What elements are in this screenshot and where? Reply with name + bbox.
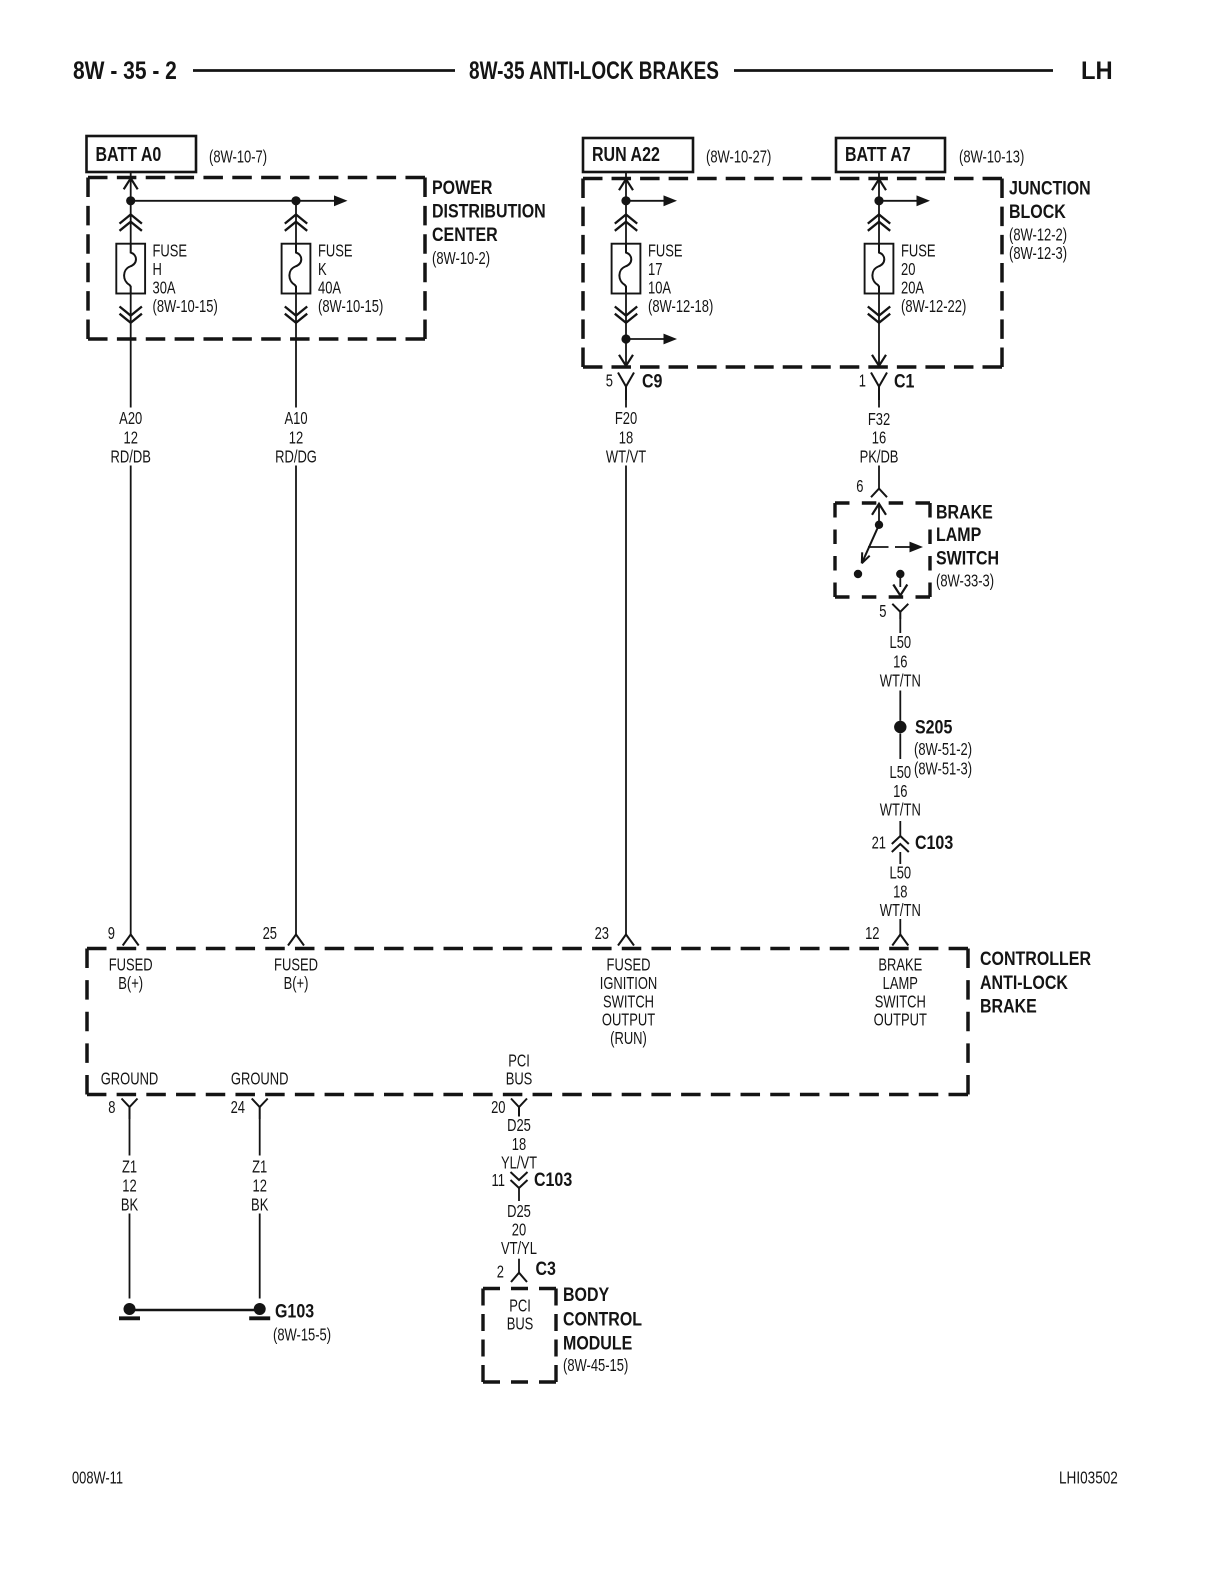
ground G103 right bar: [249, 1316, 270, 1320]
svg-text:(8W-10-13): (8W-10-13): [959, 148, 1024, 168]
svg-text:K: K: [318, 260, 327, 280]
svg-text:FUSED: FUSED: [109, 956, 153, 976]
svg-text:BODY: BODY: [563, 1284, 609, 1306]
svg-text:8: 8: [108, 1098, 115, 1118]
svg-text:C103: C103: [534, 1169, 572, 1191]
arrow run feed to other circuits: [626, 200, 664, 202]
svg-text:BLOCK: BLOCK: [1009, 201, 1066, 223]
svg-text:8W - 35 - 2: 8W - 35 - 2: [73, 56, 177, 84]
wire A10 lower: [295, 466, 297, 935]
ground G103 right dot: [254, 1303, 266, 1315]
svg-text:L50: L50: [889, 633, 911, 653]
svg-text:1: 1: [859, 372, 866, 392]
svg-text:(8W-10-2): (8W-10-2): [432, 249, 490, 269]
wire F32 upper: [878, 400, 880, 408]
node splice on A20 feed: [126, 196, 135, 205]
svg-text:FUSED: FUSED: [274, 956, 318, 976]
wire L50 seg4: [899, 821, 901, 836]
svg-text:C3: C3: [536, 1258, 557, 1280]
svg-text:18: 18: [893, 883, 908, 903]
connector chevrons below fuse K: [285, 307, 307, 316]
wire switch common: [878, 504, 880, 525]
wire to C3: [518, 1259, 520, 1273]
wire F32 lower: [878, 466, 880, 489]
svg-text:10A: 10A: [648, 279, 671, 299]
svg-text:16: 16: [893, 782, 908, 802]
connector chevrons below fuse 20: [868, 307, 890, 316]
wire F20 lower: [625, 466, 627, 935]
svg-text:G103: G103: [275, 1300, 314, 1322]
svg-text:LHI03502: LHI03502: [1059, 1469, 1118, 1488]
svg-text:FUSE: FUSE: [901, 242, 936, 262]
wire L50 seg5: [899, 852, 901, 864]
svg-text:16: 16: [893, 653, 908, 673]
fuse 20 20A: [865, 244, 894, 294]
svg-text:VT/YL: VT/YL: [501, 1239, 537, 1259]
wire A20 upper: [130, 294, 132, 408]
fuse H 30A: [116, 244, 145, 294]
svg-text:(8W-10-27): (8W-10-27): [706, 148, 771, 168]
arrow out of junction block at C1: [872, 355, 886, 366]
wire A20 lower: [130, 466, 132, 935]
controller anti-lock brake box: [87, 947, 968, 951]
connector C103 chevrons down: [511, 1172, 528, 1180]
svg-text:PCI: PCI: [508, 1052, 530, 1072]
connector box BATT A7: [836, 138, 945, 172]
svg-text:6: 6: [856, 477, 863, 497]
svg-text:11: 11: [492, 1171, 505, 1191]
wire BATT A7 to C1: [878, 172, 880, 244]
connector pin 23 CAB: [618, 935, 634, 946]
wire F20 upper: [625, 400, 627, 408]
svg-text:12: 12: [123, 428, 137, 448]
svg-text:8W-35 ANTI-LOCK BRAKES: 8W-35 ANTI-LOCK BRAKES: [469, 57, 719, 85]
svg-text:DISTRIBUTION: DISTRIBUTION: [432, 200, 546, 222]
svg-text:FUSE: FUSE: [648, 242, 683, 262]
svg-text:FUSE: FUSE: [153, 242, 188, 262]
svg-text:(8W-15-5): (8W-15-5): [273, 1326, 331, 1346]
svg-text:(8W-12-2): (8W-12-2): [1009, 226, 1067, 246]
connector C3: [511, 1273, 527, 1282]
wire A10 upper: [295, 201, 297, 244]
connector chevrons above fuse H: [120, 215, 142, 224]
svg-text:POWER: POWER: [432, 177, 493, 199]
svg-text:LH: LH: [1081, 58, 1113, 86]
wire bus A20 to A10: [131, 200, 296, 202]
arrow into RUN A22: [619, 179, 633, 190]
fuse K 40A: [282, 244, 311, 294]
svg-text:PK/DB: PK/DB: [860, 448, 899, 468]
power distribution center box: [88, 176, 425, 180]
svg-text:L50: L50: [889, 763, 911, 783]
svg-text:F32: F32: [868, 410, 890, 430]
svg-text:CONTROL: CONTROL: [563, 1308, 642, 1330]
svg-text:JUNCTION: JUNCTION: [1009, 177, 1091, 199]
svg-text:(8W-10-15): (8W-10-15): [153, 297, 218, 317]
connector chevrons below fuse 17: [615, 307, 637, 316]
node splice run feed: [621, 196, 630, 205]
svg-text:H: H: [153, 260, 162, 280]
svg-text:BUS: BUS: [506, 1070, 533, 1090]
svg-text:24: 24: [231, 1098, 246, 1118]
svg-text:(RUN): (RUN): [610, 1029, 647, 1049]
splice S205: [894, 721, 906, 733]
wire from BATT A0 to fuse H: [130, 172, 132, 244]
svg-text:12: 12: [252, 1177, 266, 1197]
svg-text:21: 21: [872, 834, 886, 854]
svg-text:F20: F20: [615, 409, 638, 429]
svg-text:CENTER: CENTER: [432, 224, 498, 246]
svg-text:(8W-51-2): (8W-51-2): [914, 740, 972, 760]
connector pin 24: [252, 1099, 268, 1108]
connector pin 12 CAB: [892, 935, 908, 946]
svg-text:FUSE: FUSE: [318, 242, 353, 262]
switch actuator dash: [868, 546, 889, 548]
svg-text:RD/DG: RD/DG: [275, 448, 317, 468]
svg-text:GROUND: GROUND: [101, 1070, 159, 1090]
svg-text:LAMP: LAMP: [936, 524, 981, 546]
svg-text:A20: A20: [119, 409, 142, 429]
wire Z1 upper left: [129, 1119, 131, 1156]
arrow out of brake lamp switch: [893, 585, 907, 596]
svg-text:D25: D25: [507, 1116, 531, 1136]
svg-text:C103: C103: [915, 832, 953, 854]
svg-text:BRAKE: BRAKE: [936, 501, 993, 523]
svg-text:12: 12: [122, 1177, 136, 1197]
svg-text:SWITCH: SWITCH: [603, 992, 654, 1012]
svg-text:IGNITION: IGNITION: [600, 974, 658, 994]
header rule right: [734, 69, 1053, 72]
ground G103 left dot: [124, 1303, 136, 1315]
switch actuator arrow: [895, 546, 910, 548]
connector pin 8: [122, 1099, 138, 1108]
svg-text:OUTPUT: OUTPUT: [602, 1011, 656, 1031]
svg-text:(8W-12-18): (8W-12-18): [648, 297, 713, 317]
node switch contact open: [854, 570, 862, 578]
wire L50 seg6: [899, 919, 901, 935]
svg-text:A10: A10: [284, 409, 307, 429]
connector C103 chevrons: [892, 836, 909, 844]
switch blade: [862, 525, 879, 564]
svg-text:RD/DB: RD/DB: [111, 448, 151, 468]
svg-text:12: 12: [865, 924, 879, 944]
wire D25 seg: [518, 1188, 520, 1201]
node splice on A10 feed: [291, 196, 300, 205]
connector C9: [618, 373, 634, 387]
svg-text:30A: 30A: [153, 279, 176, 299]
svg-text:PCI: PCI: [509, 1297, 531, 1317]
svg-text:20: 20: [901, 260, 916, 280]
wire L50 seg3: [899, 734, 901, 760]
ground G103 left bar: [119, 1316, 140, 1320]
svg-text:18: 18: [512, 1135, 527, 1155]
arrow feed to other circuits: [296, 200, 334, 202]
header rule left: [193, 69, 455, 72]
svg-text:008W-11: 008W-11: [72, 1469, 123, 1488]
svg-text:BRAKE: BRAKE: [980, 995, 1037, 1017]
svg-text:17: 17: [648, 260, 662, 280]
node splice batt feed: [874, 196, 883, 205]
junction block box: [583, 177, 1002, 181]
svg-text:L50: L50: [889, 864, 911, 884]
connector chevrons above fuse 17: [615, 215, 637, 224]
svg-text:CONTROLLER: CONTROLLER: [980, 948, 1091, 970]
svg-text:20A: 20A: [901, 279, 924, 299]
arrow into brake lamp switch: [872, 504, 886, 515]
svg-text:SWITCH: SWITCH: [875, 992, 926, 1012]
node switch common: [875, 521, 883, 529]
svg-text:WT/VT: WT/VT: [606, 448, 647, 468]
arrow batt feed to other circuits: [879, 200, 917, 202]
svg-text:YL/VT: YL/VT: [501, 1154, 537, 1174]
svg-text:B(+): B(+): [118, 974, 143, 994]
arrow into BATT A0: [124, 178, 138, 189]
connector chevrons above fuse 20: [868, 215, 890, 224]
svg-text:BATT A7: BATT A7: [845, 143, 911, 165]
svg-text:5: 5: [879, 602, 886, 622]
connector box BATT A0: [87, 136, 197, 172]
connector pin 25 CAB: [288, 935, 304, 946]
fuse 17 10A: [612, 244, 641, 294]
svg-text:(8W-33-3): (8W-33-3): [936, 572, 994, 592]
svg-text:5: 5: [606, 372, 613, 392]
svg-text:WT/TN: WT/TN: [880, 901, 921, 921]
brake lamp switch box: [835, 501, 930, 504]
arrow into BATT A7: [872, 179, 886, 190]
svg-text:25: 25: [263, 924, 278, 944]
svg-text:(8W-10-7): (8W-10-7): [209, 148, 267, 168]
svg-text:BUS: BUS: [507, 1315, 534, 1335]
svg-text:20: 20: [491, 1098, 506, 1118]
svg-text:BK: BK: [251, 1196, 269, 1216]
svg-text:C1: C1: [894, 370, 915, 392]
wire RUN A22 to C9: [625, 172, 627, 244]
connector chevrons above fuse K: [285, 215, 307, 224]
connector box RUN A22: [583, 138, 693, 172]
svg-text:(8W-45-15): (8W-45-15): [563, 1356, 628, 1376]
wire Z1 lower right: [259, 1214, 261, 1299]
svg-text:9: 9: [108, 924, 115, 944]
svg-text:16: 16: [872, 429, 887, 449]
wire Z1 lower left: [129, 1214, 131, 1299]
connector pin 20: [511, 1099, 527, 1108]
svg-text:GROUND: GROUND: [231, 1070, 289, 1090]
svg-text:BRAKE: BRAKE: [878, 956, 922, 976]
wire Z1 upper right: [259, 1119, 261, 1156]
svg-text:(8W-51-3): (8W-51-3): [914, 760, 972, 780]
connector chevrons below fuse H: [120, 307, 142, 316]
connector pin 6: [871, 489, 887, 498]
wire L50 seg1: [899, 619, 901, 633]
node splice fused run: [621, 334, 630, 343]
svg-text:ANTI-LOCK: ANTI-LOCK: [980, 972, 1068, 994]
svg-text:C9: C9: [642, 370, 663, 392]
svg-text:FUSED: FUSED: [607, 956, 651, 976]
svg-text:Z1: Z1: [252, 1158, 267, 1178]
connector pin 5: [892, 604, 908, 612]
svg-text:B(+): B(+): [284, 974, 309, 994]
svg-text:WT/TN: WT/TN: [880, 801, 921, 821]
connector pin 9 CAB: [123, 935, 139, 946]
svg-text:OUTPUT: OUTPUT: [874, 1011, 928, 1031]
svg-text:WT/TN: WT/TN: [880, 671, 921, 691]
wire ground link: [130, 1309, 260, 1312]
svg-text:(8W-12-22): (8W-12-22): [901, 297, 966, 317]
svg-text:D25: D25: [507, 1202, 531, 1222]
node switch contact output: [896, 570, 904, 578]
svg-text:BK: BK: [121, 1196, 139, 1216]
svg-text:(8W-10-15): (8W-10-15): [318, 297, 383, 317]
connector C1: [871, 373, 887, 387]
svg-text:20: 20: [512, 1221, 527, 1241]
wire L50 seg2: [899, 691, 901, 721]
svg-text:Z1: Z1: [122, 1158, 137, 1178]
svg-text:23: 23: [595, 924, 610, 944]
svg-text:S205: S205: [915, 716, 952, 738]
body control module box: [483, 1287, 556, 1290]
svg-text:SWITCH: SWITCH: [936, 547, 999, 569]
svg-text:(8W-12-3): (8W-12-3): [1009, 244, 1067, 264]
arrow out of junction block at C9: [619, 355, 633, 366]
svg-text:LAMP: LAMP: [883, 974, 918, 994]
svg-text:MODULE: MODULE: [563, 1332, 632, 1354]
svg-text:40A: 40A: [318, 279, 341, 299]
svg-text:BATT A0: BATT A0: [96, 143, 162, 165]
svg-text:12: 12: [289, 428, 303, 448]
wire switch output: [899, 578, 901, 587]
svg-text:RUN A22: RUN A22: [592, 143, 660, 165]
svg-text:2: 2: [497, 1263, 504, 1283]
svg-text:18: 18: [619, 428, 634, 448]
arrow fused run to other circuits: [626, 338, 664, 340]
